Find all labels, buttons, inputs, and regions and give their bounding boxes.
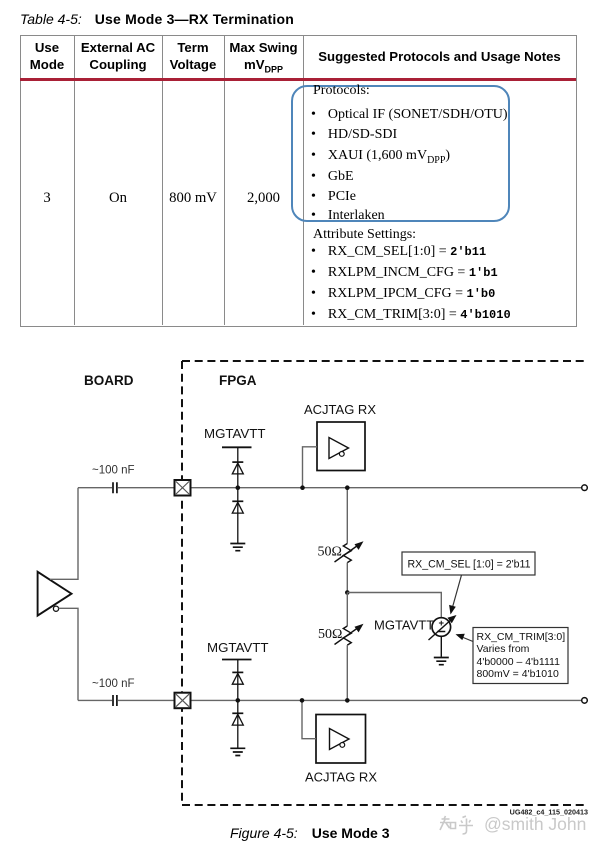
- figure caption: [230, 825, 390, 841]
- svg-text:FPGA: FPGA: [219, 373, 257, 388]
- variable source arrow: [429, 619, 453, 641]
- wire: bottom differential rail: [78, 699, 582, 701]
- svg-text:RX_CM_TRIM[3:0]: RX_CM_TRIM[3:0]: [477, 631, 566, 643]
- svg-text:50Ω: 50Ω: [318, 627, 342, 642]
- terminal node (top right pad): [582, 485, 588, 491]
- header cell: Max Swing mVDPP: [224, 39, 303, 79]
- junction: bottom clamp node: [236, 698, 241, 703]
- header cell: Suggested Protocols and Usage Notes: [303, 49, 576, 64]
- wire: bottom clamp stack vertical: [237, 660, 239, 748]
- body cell: 800 mV: [162, 190, 224, 207]
- blue highlight rounded box around protocols: [291, 85, 510, 222]
- schematic SVG: [0, 350, 603, 825]
- header cell: Use Mode: [20, 39, 74, 73]
- protocol bullet: GbE: [311, 169, 354, 185]
- diode D4 (bottom clamp to ground): [232, 712, 243, 714]
- capacitor C1 ~100 nF (top): [113, 482, 117, 493]
- table outer border: [20, 35, 577, 327]
- svg-text:MGTAVTT: MGTAVTT: [207, 640, 269, 655]
- wire: termination chain vertical (top rail to R1): [346, 488, 348, 544]
- header cell: Term Voltage: [162, 39, 224, 73]
- junction: top ACJTAG tap node: [300, 485, 305, 490]
- wire: source to ground: [440, 636, 442, 657]
- ground (bottom clamp stack): [230, 748, 245, 755]
- wire: top ACJTAG RX input tap: [303, 447, 318, 488]
- svg-text:ACJTAG RX: ACJTAG RX: [305, 770, 377, 785]
- junction: top rail / R1 chain: [345, 485, 350, 490]
- wire: R1 to center node: [346, 563, 348, 593]
- junction: bottom ACJTAG tap node: [300, 698, 305, 703]
- svg-text:~100 nF: ~100 nF: [92, 465, 135, 477]
- op-amp A2 (bottom ACJTAG RX buffer box): [316, 715, 366, 764]
- junction: top clamp node: [236, 485, 241, 490]
- table header red rule: [20, 78, 576, 81]
- capacitor C2 ~100 nF (bottom): [113, 695, 117, 706]
- svg-text:~100 nF: ~100 nF: [92, 678, 135, 690]
- pad P (top package pin, crossed square): [175, 480, 191, 496]
- voltage source V1 (MGTAVTT variable source): [432, 618, 451, 637]
- svg-text:4'b0000 – 4'b1111: 4'b0000 – 4'b1111: [477, 656, 561, 668]
- wire: R2 to bottom rail: [346, 645, 348, 700]
- wire: driver complement output down to bottom rail: [59, 608, 79, 700]
- driver U1 (board-side differential driver triangle): [38, 572, 72, 616]
- leader arrow from RX_CM_TRIM box to source: [462, 637, 473, 642]
- protocol bullet: PCIe: [311, 189, 356, 205]
- FPGA dashed boundary box (top, left, bottom edges): [182, 361, 587, 805]
- svg-text:BOARD: BOARD: [84, 373, 134, 388]
- wire: top differential rail: [78, 487, 582, 489]
- junction: bottom rail / R2 chain: [345, 698, 350, 703]
- pad N (bottom package pin, crossed square): [175, 693, 191, 709]
- attribute bullet: RX_CM_TRIM: [311, 307, 511, 323]
- body cell: 3: [20, 190, 74, 207]
- driver inverting bubble: [53, 606, 58, 611]
- annotation box RX_CM_TRIM: [473, 628, 568, 684]
- table column line 3: [224, 35, 225, 325]
- wire: driver true output up to top rail: [50, 488, 78, 580]
- table column line 1: [74, 35, 75, 325]
- svg-text:RX_CM_SEL [1:0] = 2'b11: RX_CM_SEL [1:0] = 2'b11: [408, 559, 531, 571]
- junction: center common-mode node: [345, 590, 350, 595]
- svg-text:MGTAVTT: MGTAVTT: [374, 618, 434, 633]
- header cell: External AC Coupling: [74, 39, 162, 73]
- ground (top clamp stack): [230, 544, 245, 551]
- diode D3 (bottom clamp to MGTAVTT): [232, 671, 243, 673]
- wire: bottom ACJTAG RX input tap: [302, 700, 316, 738]
- attribute bullet: RXLPM_IPCM_CFG: [311, 286, 495, 302]
- protocol bullet: Optical IF: [311, 107, 508, 123]
- table column line 4: [303, 35, 304, 325]
- watermark zhihu @smith John: [436, 812, 596, 838]
- svg-text:Varies from: Varies from: [477, 643, 530, 655]
- wire: center node to VCM source: [347, 593, 441, 618]
- body cell: 2,000: [224, 190, 303, 207]
- terminal node (bottom right pad): [582, 698, 588, 704]
- diode D2 (top clamp to ground): [232, 500, 243, 502]
- svg-text:ACJTAG RX: ACJTAG RX: [304, 402, 376, 417]
- ground (VCM source): [434, 658, 449, 665]
- resistor R2 50 ohm (variable): [343, 626, 351, 645]
- wire: top clamp stack vertical: [237, 447, 239, 543]
- svg-text:800mV = 4'b1010: 800mV = 4'b1010: [477, 668, 559, 680]
- protocol bullet: XAUI: [311, 148, 450, 166]
- attribute settings heading: [313, 227, 416, 243]
- MGTAVTT rail bar (top): [222, 446, 252, 448]
- diode D1 (top clamp to MGTAVTT): [232, 461, 243, 463]
- protocol bullet: Interlaken: [311, 208, 385, 224]
- table column line 2: [162, 35, 163, 325]
- MGTAVTT rail bar (bottom): [222, 659, 252, 661]
- resistor R1 50 ohm (variable): [343, 544, 351, 563]
- table title: [20, 11, 294, 27]
- attribute bullet: RXLPM_INCM_CFG: [311, 265, 498, 281]
- leader arrow from RX_CM_SEL box to source: [452, 575, 462, 609]
- op-amp A1 (top ACJTAG RX buffer box): [317, 422, 365, 471]
- svg-text:MGTAVTT: MGTAVTT: [204, 426, 266, 441]
- body cell: On: [74, 190, 162, 207]
- protocols heading: [313, 83, 370, 99]
- attribute bullet: RX_CM_SEL: [311, 244, 486, 260]
- svg-text:@smith John: @smith John: [484, 814, 586, 834]
- annotation box RX_CM_SEL: [402, 552, 535, 575]
- protocol bullet: HD/SD-SDI: [311, 127, 397, 143]
- wire: center node to R2: [346, 593, 348, 627]
- svg-text:50Ω: 50Ω: [318, 545, 342, 560]
